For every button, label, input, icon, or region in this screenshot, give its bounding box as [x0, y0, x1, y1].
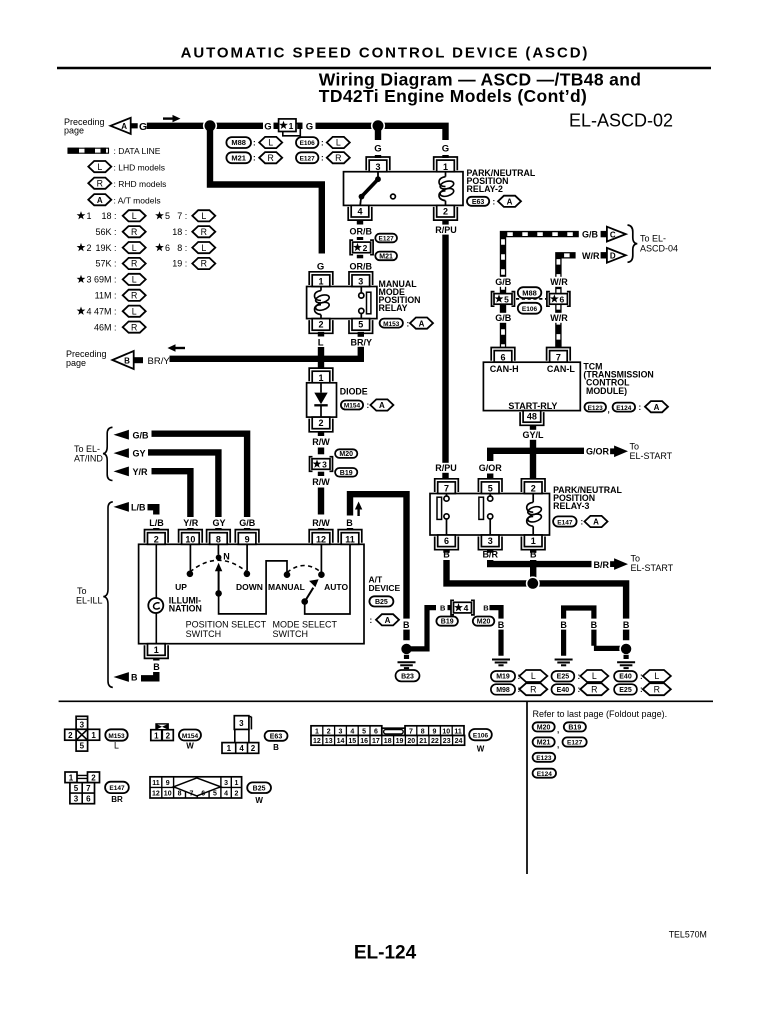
svg-text:B: B [560, 620, 567, 630]
dashed arc UP-N-DOWN [190, 560, 247, 572]
svg-text:4: 4 [87, 306, 92, 316]
arrow C to EL-ASCD-04 [601, 227, 626, 242]
svg-text:1: 1 [531, 536, 536, 546]
connector M153 : A/T [380, 318, 433, 329]
svg-text:2: 2 [318, 320, 323, 330]
svg-text:MODULE): MODULE) [586, 386, 627, 396]
: A/T hexagon [370, 614, 400, 625]
svg-text:W: W [255, 796, 263, 805]
svg-text:L: L [531, 671, 536, 681]
connector E147 : A/T [553, 516, 607, 527]
svg-text:46M :: 46M : [94, 322, 117, 332]
svg-text:BR/Y: BR/Y [148, 356, 171, 367]
brace To EL-AT/IND [103, 427, 113, 480]
connector M88 : LHD [226, 137, 282, 148]
svg-text:EL-START: EL-START [631, 563, 674, 573]
svg-text:W/R: W/R [582, 251, 600, 261]
svg-text:R: R [591, 684, 597, 694]
svg-text:10: 10 [442, 728, 450, 735]
svg-text:G/B: G/B [239, 518, 256, 528]
svg-text:R: R [131, 322, 137, 332]
inline connector *2 [350, 240, 373, 255]
svg-text:R: R [131, 291, 137, 301]
svg-text:L: L [201, 211, 206, 221]
svg-text:RELAY-3: RELAY-3 [553, 501, 589, 511]
svg-text:11: 11 [345, 534, 355, 544]
pin 12 [309, 530, 333, 545]
svg-text:EL-124: EL-124 [354, 943, 417, 964]
svg-text:M154: M154 [344, 403, 361, 410]
inline connector *5 [492, 292, 515, 307]
connector E123 oval [533, 753, 556, 762]
brace To EL-ILL [103, 502, 113, 688]
svg-text:B: B [483, 604, 489, 613]
svg-text:3: 3 [375, 162, 380, 172]
svg-text:E123: E123 [588, 405, 604, 412]
svg-text:3: 3 [224, 780, 228, 787]
svg-text:57K :: 57K : [95, 259, 116, 269]
svg-text:G: G [442, 144, 449, 155]
connector E127 : RHD [296, 152, 350, 163]
svg-text:AUTOMATIC SPEED CONTROL DEVICE: AUTOMATIC SPEED CONTROL DEVICE (ASCD) [181, 44, 590, 61]
arrow to EL-START [610, 558, 628, 570]
svg-text:B: B [346, 518, 353, 528]
svg-text:L: L [114, 741, 119, 751]
svg-text:G: G [374, 144, 381, 155]
ground stub [404, 655, 409, 659]
diode pin 2 [309, 417, 333, 432]
svg-text::: : [581, 518, 584, 527]
svg-text:ASCD-04: ASCD-04 [640, 244, 678, 254]
connector M20 oval [473, 617, 495, 626]
svg-text:20: 20 [407, 738, 415, 745]
wire [297, 123, 302, 129]
svg-text:24: 24 [455, 738, 463, 745]
svg-text:8 :: 8 : [177, 243, 187, 253]
svg-text:M154: M154 [182, 733, 199, 740]
svg-text:DIODE: DIODE [340, 386, 368, 396]
node G label above relay-2 pin 3 [374, 144, 381, 159]
AUTO contact dot [318, 571, 325, 578]
svg-text:START-RLY: START-RLY [508, 401, 557, 411]
svg-text:DEVICE: DEVICE [369, 583, 401, 593]
connector view M153 [65, 716, 100, 751]
svg-text:E63: E63 [472, 199, 485, 206]
svg-text:B25: B25 [253, 786, 266, 793]
dashed arc MANUAL-AUTO [287, 566, 321, 573]
svg-text:page: page [66, 358, 86, 368]
svg-text:5: 5 [80, 742, 85, 751]
svg-text:5: 5 [488, 484, 493, 494]
connector M19 : L [491, 670, 547, 682]
node B label on B23 leg [401, 619, 412, 630]
diode pin 1 [309, 368, 333, 383]
svg-text:6: 6 [201, 791, 205, 798]
TCM body [483, 362, 580, 410]
svg-text:R/PU: R/PU [435, 225, 457, 235]
svg-text:R/PU: R/PU [435, 463, 457, 473]
svg-text:A: A [97, 196, 103, 205]
svg-text:A: A [593, 518, 599, 527]
star note row 8: 46M:R [94, 322, 146, 333]
svg-text:G/OR: G/OR [586, 446, 610, 456]
svg-text:CAN-H: CAN-H [490, 364, 519, 374]
svg-text:3: 3 [488, 536, 493, 546]
svg-text:R: R [530, 684, 536, 694]
inline connector *6 [547, 292, 570, 307]
svg-text:12: 12 [316, 534, 326, 544]
svg-text:1: 1 [227, 744, 232, 753]
svg-text:1: 1 [318, 373, 323, 383]
svg-text:A: A [385, 616, 391, 625]
star note row 4: 57K:R / 19:R [95, 258, 215, 269]
wire *4 to M19 ground [490, 608, 502, 656]
connector M154 label [179, 730, 201, 751]
svg-text:7: 7 [189, 791, 193, 798]
svg-text:2: 2 [318, 418, 323, 428]
svg-text:2: 2 [87, 243, 92, 253]
pin 9 [235, 530, 259, 545]
svg-text:9: 9 [433, 728, 437, 735]
svg-text:OR/B: OR/B [350, 226, 373, 236]
svg-text:SWITCH: SWITCH [273, 629, 309, 639]
wire [357, 255, 363, 258]
wire stub to manual relay pin 1 [319, 268, 325, 275]
svg-text:To EL-: To EL- [640, 234, 666, 244]
svg-text:R: R [131, 227, 137, 237]
svg-text:C: C [610, 230, 616, 239]
svg-text:G/B: G/B [495, 313, 512, 323]
svg-text:18 :: 18 : [101, 211, 116, 221]
svg-text:R: R [201, 227, 207, 237]
svg-text:EL-ASCD-02: EL-ASCD-02 [569, 111, 673, 131]
svg-text:11M :: 11M : [95, 291, 117, 301]
RHD legend [88, 178, 166, 189]
arrow to EL-START [610, 446, 628, 458]
svg-text:3: 3 [322, 459, 327, 469]
svg-text:R/W: R/W [312, 437, 330, 447]
svg-text:G: G [317, 261, 324, 272]
svg-text:M21: M21 [379, 254, 393, 261]
svg-text:19 :: 19 : [172, 259, 187, 269]
wire wiper to manual contact [219, 561, 287, 614]
wire [357, 237, 363, 240]
svg-text:12: 12 [152, 791, 160, 798]
svg-text:L/B: L/B [149, 518, 164, 528]
svg-text:B: B [498, 620, 505, 630]
TCM name [583, 362, 653, 396]
svg-text:MODE SELECT: MODE SELECT [273, 619, 338, 629]
svg-text:7: 7 [556, 352, 561, 362]
svg-text:M20: M20 [477, 619, 491, 626]
TCM pin 7 [547, 348, 571, 363]
svg-text:AT/IND: AT/IND [74, 454, 103, 464]
svg-text:12: 12 [313, 738, 321, 745]
svg-text:E124: E124 [537, 771, 553, 778]
svg-text:2: 2 [443, 207, 448, 217]
svg-text:To: To [631, 554, 641, 564]
svg-text::: : [253, 154, 256, 163]
svg-text:R: R [335, 153, 341, 163]
connector M21 : RHD [226, 152, 282, 163]
svg-text:4: 4 [357, 207, 362, 217]
svg-text:L: L [268, 138, 273, 148]
svg-text:2: 2 [363, 243, 368, 253]
A/T device body [139, 544, 364, 643]
arrow B to EL-ILL [114, 672, 139, 683]
svg-text:G/B: G/B [582, 230, 599, 240]
pin 2 [434, 205, 458, 220]
svg-text:L: L [336, 138, 341, 148]
svg-text:6: 6 [500, 352, 505, 362]
label To EL-START [631, 554, 674, 574]
svg-text:6: 6 [86, 794, 91, 803]
position wiper arm with arrowhead [215, 563, 222, 594]
svg-text:1: 1 [318, 277, 323, 287]
svg-text:L: L [132, 306, 137, 316]
pin 5 [478, 479, 502, 494]
pin 3 [349, 272, 373, 287]
svg-text:6: 6 [165, 243, 170, 253]
svg-text:M98: M98 [496, 687, 510, 694]
label ILLUMI-NATION [169, 595, 202, 613]
svg-text:5: 5 [358, 320, 363, 330]
wire stub junction2 to relay-2 pin 3 [375, 128, 381, 140]
svg-text:B23: B23 [401, 673, 414, 680]
svg-text:6: 6 [374, 728, 378, 735]
svg-text:M21: M21 [231, 153, 246, 162]
pin 11 [338, 530, 362, 545]
label To EL-ASCD-04 [640, 234, 678, 254]
relay park/neutral position relay-2 body [344, 172, 464, 206]
relay-2 coil [439, 172, 455, 206]
preceding page B callout [66, 349, 170, 369]
svg-text:1: 1 [235, 780, 239, 787]
wire GY to A/T device pin 8 [148, 452, 218, 514]
svg-text:1: 1 [443, 162, 448, 172]
svg-text:W: W [186, 742, 194, 751]
svg-text:4: 4 [464, 603, 469, 613]
svg-text:2: 2 [327, 728, 331, 735]
wire B from pin 11 up and over to B23 ground [350, 494, 407, 640]
svg-text:E40: E40 [619, 674, 632, 681]
node R/PU label [434, 225, 458, 235]
svg-text:Y/R: Y/R [133, 467, 149, 477]
wire G top bus [147, 123, 263, 129]
wire B from A/T pin 1 to EL-ILL [141, 658, 156, 678]
pin 8 [207, 530, 231, 545]
star note row 3: *2 19K:L / *6 8:L [77, 242, 216, 253]
svg-text:3: 3 [339, 728, 343, 735]
svg-text:3: 3 [358, 277, 363, 287]
relay-2 switch blade [359, 172, 381, 206]
star note row 2: 56K:R / 18:R [95, 226, 215, 237]
wire Y/R to A/T device pin 10 [152, 471, 191, 514]
svg-text:GY: GY [212, 518, 225, 528]
svg-text:18 :: 18 : [172, 227, 187, 237]
arrow G/B to EL-AT/IND [114, 430, 150, 440]
svg-text:2: 2 [235, 791, 239, 798]
N contact dot [216, 551, 230, 561]
svg-text::: : [493, 198, 496, 207]
wire stub pin 11 [347, 528, 353, 530]
svg-text:SWITCH: SWITCH [186, 629, 222, 639]
svg-text:L: L [132, 211, 137, 221]
svg-text:8: 8 [216, 534, 221, 544]
svg-text:6: 6 [444, 536, 449, 546]
svg-text:W/R: W/R [550, 277, 568, 287]
preceding page A callout [64, 117, 147, 136]
wire BR/Y from pin 5 to bus [358, 332, 364, 362]
connector M20 , B19 ovals [533, 722, 586, 734]
node B label on M19 leg [496, 619, 507, 630]
wire G/OR branch from relay-3 pin 5 to EL-START [490, 451, 584, 461]
connector B25 label [247, 782, 271, 804]
svg-text:2: 2 [251, 744, 256, 753]
label A/T DEVICE [369, 575, 401, 593]
svg-text:E127: E127 [379, 236, 395, 243]
svg-text::: : [321, 139, 324, 148]
connector E124 oval [533, 769, 556, 778]
connector E25 : L [552, 670, 609, 682]
svg-text:21: 21 [419, 738, 427, 745]
wire stub [187, 515, 193, 530]
illumination lamp wire [155, 544, 157, 643]
svg-text:,: , [557, 726, 559, 735]
svg-text:E40: E40 [557, 687, 570, 694]
ground symbol B23 [398, 662, 416, 668]
svg-text:B/R: B/R [594, 560, 610, 570]
svg-text:UP: UP [175, 582, 187, 592]
node B label on E40 leg [621, 619, 632, 630]
svg-text::: : [639, 403, 642, 412]
svg-text:W: W [477, 745, 485, 754]
svg-text:1: 1 [69, 773, 74, 782]
ground symbol E40 [617, 662, 635, 668]
svg-text:B19: B19 [340, 470, 353, 477]
svg-text:E106: E106 [522, 306, 538, 313]
connector B19 oval [335, 468, 357, 477]
relay-3 name [553, 485, 622, 511]
svg-text:POSITION SELECT: POSITION SELECT [186, 619, 267, 629]
svg-text:47M :: 47M : [94, 306, 117, 316]
wire B/R from pin 3 to EL-START [490, 560, 591, 564]
svg-text:14: 14 [337, 738, 345, 745]
wire BR/Y bus to preceding page B [170, 356, 364, 362]
svg-text:R: R [97, 178, 103, 188]
svg-text:G: G [139, 121, 147, 133]
connector E106 oval [518, 303, 542, 314]
svg-text:1: 1 [315, 728, 319, 735]
wire to manual relay pin 3 [357, 268, 363, 275]
LHD legend [88, 161, 165, 172]
svg-text:L: L [592, 671, 597, 681]
svg-text:R/W: R/W [312, 518, 330, 528]
svg-text:5: 5 [74, 784, 79, 793]
svg-text:NATION: NATION [169, 604, 202, 614]
node G/B label above *5 [495, 277, 512, 287]
svg-text:3: 3 [80, 721, 85, 730]
wire lead left of *4 [448, 605, 451, 610]
svg-text:GY/L: GY/L [522, 430, 544, 440]
svg-text:11: 11 [454, 728, 462, 735]
svg-text:: A/T models: : A/T models [114, 195, 161, 205]
svg-text:TEL570M: TEL570M [669, 930, 707, 940]
connector M154 : A/T [341, 399, 394, 410]
svg-text:6: 6 [560, 294, 565, 304]
svg-text:TD42Ti Engine Models (Cont’d): TD42Ti Engine Models (Cont’d) [319, 86, 587, 106]
svg-text:R: R [201, 259, 207, 269]
svg-text::: : [321, 154, 324, 163]
svg-text:GY: GY [133, 449, 146, 459]
wire E25 ground network [564, 608, 621, 656]
connector E147 label [105, 782, 129, 804]
label POSITION SELECT SWITCH [186, 619, 267, 639]
pin 1 [521, 535, 545, 550]
wire mode wiper to pin 11 [305, 544, 350, 614]
svg-text:10: 10 [185, 534, 195, 544]
connector E40 : L [614, 670, 671, 682]
connector E40 : R [552, 683, 609, 695]
svg-text:G/B: G/B [133, 430, 150, 440]
svg-text:A: A [507, 198, 513, 207]
TCM pin 6 [491, 348, 515, 363]
data line legend symbol [68, 146, 161, 156]
svg-text:8: 8 [421, 728, 425, 735]
svg-text:CAN-L: CAN-L [547, 364, 575, 374]
star note row 5: *3 69M:L [77, 274, 146, 285]
svg-text::: : [407, 319, 410, 328]
svg-text:M88: M88 [231, 138, 246, 147]
svg-text:23: 23 [443, 738, 451, 745]
wire L/B to A/T device pin 2 [148, 507, 157, 514]
node B/R label inline [593, 559, 611, 571]
svg-text:E123: E123 [536, 755, 552, 762]
wire B from pin 1 [530, 560, 536, 583]
svg-text:M88: M88 [522, 288, 537, 297]
label MODE SELECT SWITCH [273, 619, 338, 639]
svg-text:D: D [610, 252, 616, 261]
diode body [307, 383, 337, 417]
svg-text:: DATA LINE: : DATA LINE [114, 146, 161, 156]
svg-text:A: A [379, 401, 385, 410]
svg-text::: : [367, 401, 370, 410]
connector E63 : A/T [467, 196, 521, 207]
svg-text:EL-ILL: EL-ILL [76, 595, 103, 605]
svg-text:1: 1 [154, 645, 159, 655]
svg-text:E124: E124 [616, 405, 632, 412]
svg-text:19: 19 [396, 738, 404, 745]
svg-text:RELAY-2: RELAY-2 [467, 184, 503, 194]
svg-text:8: 8 [178, 791, 182, 798]
flow arrow right on top bus [163, 115, 181, 122]
svg-text:E63: E63 [270, 734, 283, 741]
pin 12 line to AUTO [320, 544, 322, 572]
arrow L/B to EL-ILL [114, 502, 146, 513]
svg-text:7 :: 7 : [177, 211, 187, 221]
svg-text:R: R [268, 153, 274, 163]
connector E106 label [469, 729, 492, 754]
wire junction to *4 branch [409, 608, 436, 649]
svg-text:B: B [273, 743, 279, 752]
relay-3 contact 7-6 [437, 494, 449, 536]
svg-text:1: 1 [91, 731, 96, 740]
svg-text:3: 3 [87, 275, 92, 285]
arrow GY to EL-AT/IND [114, 448, 146, 459]
wire B bus from pin 6 and pin 1 to ground E40 [447, 560, 627, 640]
svg-text:1: 1 [154, 731, 159, 740]
pin 4 [348, 205, 372, 220]
